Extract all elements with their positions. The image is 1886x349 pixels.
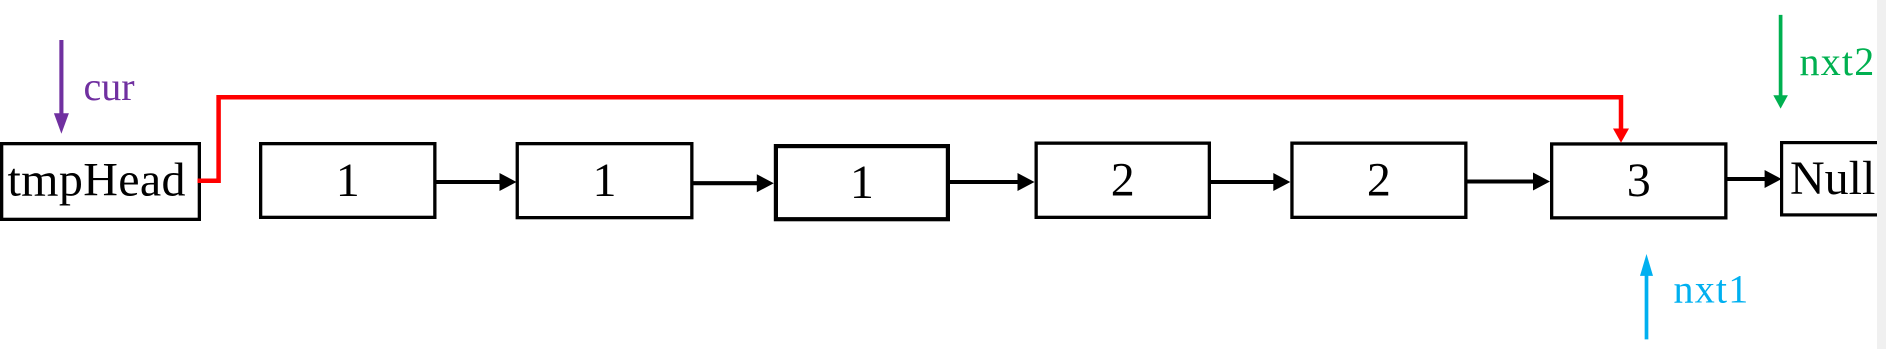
node Null box (right edge cut off) bbox=[1782, 143, 1886, 215]
svg-text:cur: cur bbox=[84, 64, 135, 109]
node box 2 (first) bbox=[1036, 143, 1209, 217]
svg-text:nxt1: nxt1 bbox=[1674, 267, 1750, 312]
arrow box5 to box6 bbox=[1467, 173, 1550, 191]
node box 3 bbox=[1552, 144, 1726, 218]
svg-text:3: 3 bbox=[1627, 154, 1651, 207]
arrow box1 to box2 bbox=[436, 173, 517, 191]
arrow box2 to box3 bbox=[693, 174, 774, 192]
node box 1 (first) bbox=[261, 144, 435, 218]
svg-text:2: 2 bbox=[1367, 154, 1391, 207]
svg-text:1: 1 bbox=[850, 156, 874, 209]
svg-text:1: 1 bbox=[593, 154, 617, 207]
arrow box3 to box4 bbox=[950, 173, 1035, 191]
svg-text:Null: Null bbox=[1790, 152, 1875, 205]
red connector wire from tmpHead to box 3 bbox=[198, 97, 1630, 181]
node tmpHead box bbox=[2, 144, 200, 220]
node box 1 (third) bbox=[776, 146, 948, 219]
arrow box6 to Null bbox=[1727, 170, 1782, 188]
svg-text:1: 1 bbox=[336, 154, 360, 207]
right edge gray strip bbox=[1877, 0, 1886, 349]
green nxt2 pointer arrow bbox=[1773, 15, 1788, 109]
node box 2 (second) bbox=[1292, 143, 1466, 217]
svg-text:2: 2 bbox=[1111, 154, 1135, 207]
node box 1 (second) bbox=[517, 144, 692, 218]
svg-text:nxt2: nxt2 bbox=[1800, 39, 1876, 84]
purple cur pointer arrow bbox=[54, 40, 69, 134]
arrow box4 to box5 bbox=[1211, 173, 1291, 191]
svg-text:tmpHead: tmpHead bbox=[8, 154, 186, 207]
cyan nxt1 pointer arrow bbox=[1640, 254, 1653, 339]
